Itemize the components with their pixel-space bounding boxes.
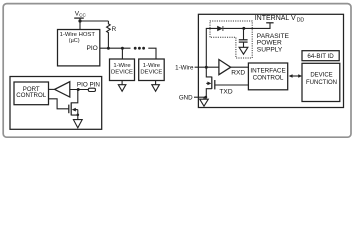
svg-text:(µC): (µC) [69,38,80,44]
svg-text:CC: CC [79,12,86,17]
svg-text:FUNCTION: FUNCTION [306,80,337,86]
svg-text:DEVICE: DEVICE [310,73,332,79]
svg-text:RXD: RXD [231,70,245,77]
svg-text:PIO PIN: PIO PIN [77,82,101,89]
svg-text:INTERNAL V: INTERNAL V [255,15,296,22]
svg-text:GND: GND [179,95,193,102]
svg-text:INTERFACE: INTERFACE [250,67,285,74]
svg-text:1-Wire: 1-Wire [175,64,194,71]
svg-text:TXD: TXD [219,88,232,95]
svg-text:DD: DD [297,17,305,23]
svg-text:SUPPLY: SUPPLY [257,46,283,53]
svg-text:R: R [112,26,117,33]
svg-text:1-Wire: 1-Wire [143,63,161,69]
svg-text:DEVICE: DEVICE [111,70,133,76]
svg-text:DEVICE: DEVICE [140,70,162,76]
svg-text:CONTROL: CONTROL [253,74,284,81]
svg-text:1-Wire: 1-Wire [113,63,131,69]
svg-text:CONTROL: CONTROL [16,92,46,99]
svg-text:64-BIT ID: 64-BIT ID [307,53,334,60]
svg-text:PIO: PIO [86,45,97,52]
